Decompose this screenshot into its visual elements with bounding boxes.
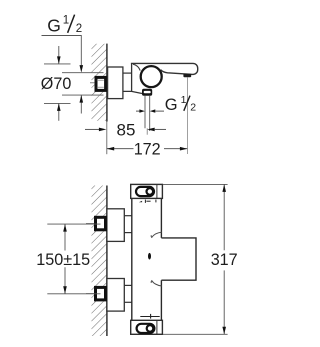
svg-text:172: 172 [134, 140, 161, 159]
svg-text:85: 85 [117, 121, 136, 140]
svg-text:1: 1 [63, 14, 69, 26]
svg-text:2: 2 [76, 23, 82, 35]
svg-text:2: 2 [190, 102, 196, 114]
svg-text:150±15: 150±15 [36, 250, 90, 269]
svg-text:G: G [47, 16, 61, 36]
svg-text:Ø70: Ø70 [41, 74, 72, 93]
svg-text:1: 1 [181, 94, 187, 106]
svg-text:317: 317 [211, 250, 238, 269]
svg-text:G: G [165, 96, 178, 114]
